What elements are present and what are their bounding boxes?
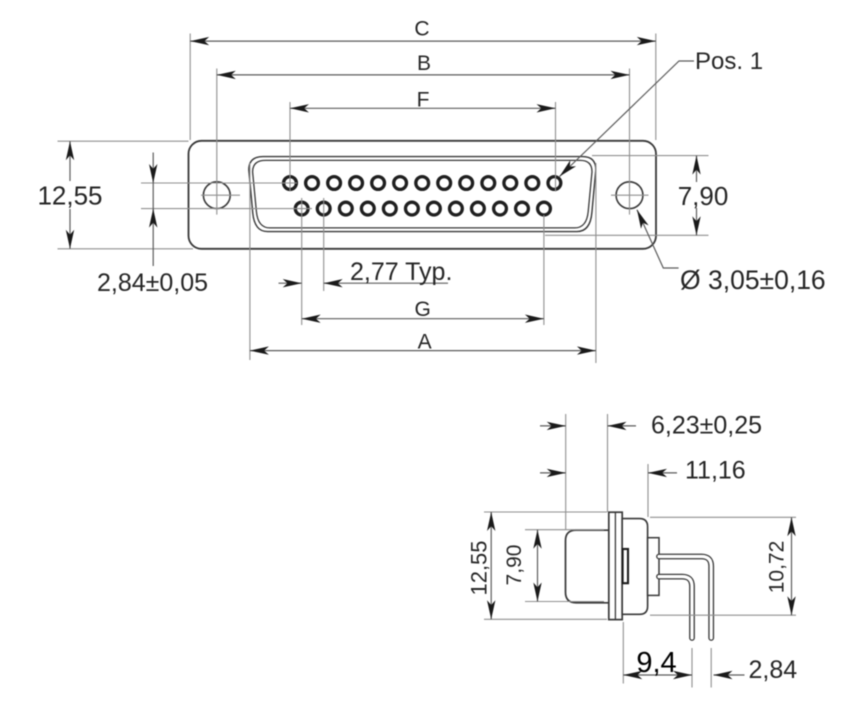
extension lines dimension 6,23 <box>566 414 608 530</box>
extension lines dimension C <box>190 34 656 141</box>
extension line row1 horizontal (2,84 top) <box>141 182 297 184</box>
extension lines dimension A <box>250 163 596 363</box>
dimension 2,84±0,05 (row spacing) <box>152 153 154 267</box>
dimension 10,72 <box>791 517 793 615</box>
D-insert inner outline <box>253 160 592 228</box>
extension lines dimension 7,90 right <box>545 156 709 236</box>
svg-text:2,84: 2,84 <box>749 656 798 684</box>
mounting flange plate (side view) <box>609 512 622 619</box>
dimension G <box>302 318 544 320</box>
dimension 12,55 side <box>490 512 492 619</box>
rear housing (side view) <box>622 519 647 615</box>
svg-text:12,55: 12,55 <box>467 540 492 595</box>
svg-text:7,90: 7,90 <box>678 181 729 211</box>
extension line pin13 row1 vertical (F right) <box>555 102 557 192</box>
svg-text:C: C <box>414 18 429 41</box>
extension line pin2 row2 vertical (2,77 right) <box>323 198 325 291</box>
svg-text:B: B <box>417 52 431 75</box>
dimension 2,84 (pin spacing side) <box>714 674 745 676</box>
dimension 11,16 <box>540 472 677 474</box>
dimension B <box>217 74 630 76</box>
svg-text:Ø 3,05±0,16: Ø 3,05±0,16 <box>680 265 826 295</box>
dimension 7,90 side <box>537 530 539 602</box>
extension lines pin centres (9,4 / 2,84) <box>692 648 711 688</box>
extension lines dimension 10,72 <box>650 517 796 615</box>
dimension F <box>290 107 556 109</box>
dimension 7,90 right <box>696 156 698 236</box>
svg-text:12,55: 12,55 <box>37 181 102 211</box>
svg-text:2,77 Typ.: 2,77 Typ. <box>350 258 452 286</box>
centreline through mounting hole right <box>611 69 649 215</box>
shell barrel (side view) <box>566 530 613 603</box>
extension lines dimension 12,55 side <box>484 512 607 619</box>
svg-text:G: G <box>415 298 431 321</box>
extension line row2 horizontal (2,84 bottom) <box>141 208 312 210</box>
svg-text:Pos. 1: Pos. 1 <box>695 48 763 75</box>
lower contact pin (bent solder pin) <box>659 577 692 638</box>
mounting hole right <box>616 182 643 209</box>
label Pos. 1 with leader to pin 13 <box>560 61 695 177</box>
svg-text:11,16: 11,16 <box>685 457 746 485</box>
centreline through mounting hole left <box>201 69 240 215</box>
dimension 6,23±0,25 <box>540 425 636 427</box>
extension line pin1 row1 vertical (F left) <box>289 102 291 192</box>
extension lines dimension 7,90 side <box>525 530 604 602</box>
dimension 12,55 left <box>69 141 71 249</box>
contact pins row 1 (13 pins) <box>284 177 561 190</box>
dimension 9,4 <box>623 674 692 676</box>
contact pins row 2 (12 pins) <box>295 202 550 215</box>
svg-text:7,90: 7,90 <box>503 545 526 586</box>
svg-text:F: F <box>417 89 430 112</box>
mounting hole left <box>203 182 230 209</box>
flange outline (front view) <box>189 141 657 249</box>
dimension 2,77 Typ. (pin pitch) <box>279 282 449 284</box>
upper contact pin (bent solder pin) <box>659 557 711 639</box>
dimension C <box>190 40 656 42</box>
insert detail bar behind flange <box>623 549 628 583</box>
extension line pin12 row2 vertical (G right) <box>543 215 545 325</box>
D-insert outer outline <box>249 157 596 232</box>
dimension A <box>250 350 596 352</box>
svg-text:2,84±0,05: 2,84±0,05 <box>97 269 208 297</box>
svg-text:A: A <box>418 331 432 354</box>
extension line dimension 11,16 right <box>647 464 649 517</box>
svg-text:6,23±0,25: 6,23±0,25 <box>651 412 762 440</box>
extension line pin1 row2 vertical (2,77 / G left) <box>301 198 303 325</box>
svg-text:9,4: 9,4 <box>636 647 676 679</box>
svg-text:10,72: 10,72 <box>766 541 789 594</box>
extension lines dimension 12,55 left <box>58 141 194 249</box>
rear insulator block <box>648 538 659 596</box>
extension line flange rear (9,4 left) <box>622 622 624 684</box>
label Ø 3,05±0,16 with leader to mounting hole <box>637 210 679 268</box>
